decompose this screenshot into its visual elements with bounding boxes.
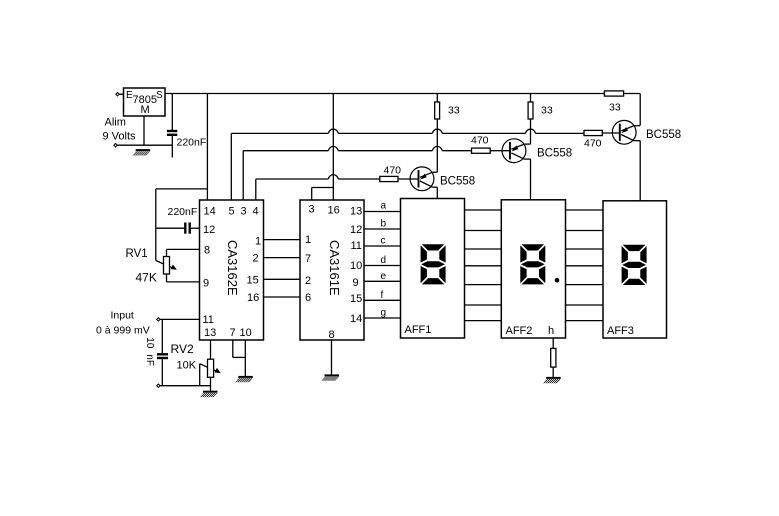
- 7-segment digit AFF1: [421, 244, 446, 284]
- svg-text:9: 9: [203, 278, 209, 290]
- bus rung b AFF1-AFF2: [465, 230, 502, 232]
- bus rung e AFF2-AFF3: [566, 284, 604, 286]
- svg-text:d: d: [381, 255, 387, 266]
- svg-text:Input: Input: [111, 310, 134, 322]
- wire pin8 to ground: [331, 340, 333, 375]
- transistor Q3 BC558: [612, 120, 681, 144]
- svg-text:33: 33: [541, 105, 553, 117]
- svg-text:2: 2: [305, 275, 311, 287]
- decimal point AFF2: [555, 278, 560, 283]
- bus rung a AFF1-AFF2: [465, 209, 502, 211]
- capacitor C1 220nF: [167, 94, 206, 158]
- svg-text:15: 15: [247, 275, 259, 287]
- svg-text:8: 8: [204, 245, 210, 257]
- transistor Q2 BC558: [502, 139, 572, 163]
- wire pins 7,10 to ground: [233, 340, 246, 376]
- wire segment b: [364, 219, 401, 230]
- svg-text:13: 13: [204, 327, 216, 339]
- wire Q1 collector to AFF1: [436, 187, 438, 198]
- terminal input+: [157, 318, 160, 321]
- svg-text:15: 15: [350, 293, 362, 305]
- ground under AFF2: [543, 378, 561, 383]
- wire alim ground rail: [118, 144, 173, 146]
- svg-text:220nF: 220nF: [168, 206, 198, 218]
- svg-text:AFF2: AFF2: [506, 325, 533, 337]
- svg-text:33: 33: [448, 105, 460, 117]
- svg-text:3: 3: [241, 206, 247, 218]
- svg-text:BC558: BC558: [440, 176, 475, 188]
- svg-text:11: 11: [351, 240, 362, 252]
- svg-text:470: 470: [384, 165, 402, 177]
- svg-text:10: 10: [144, 337, 155, 349]
- svg-text:10: 10: [350, 260, 362, 272]
- wire segment g: [364, 308, 401, 319]
- svg-text:8: 8: [329, 329, 335, 341]
- wire input- rail: [160, 385, 210, 387]
- resistor R2 33 (digit2 collector): [528, 94, 553, 145]
- bus rung e AFF1-AFF2: [465, 284, 502, 286]
- wire BCD 1-1: [264, 239, 301, 241]
- svg-text:6: 6: [305, 292, 311, 304]
- bus rung g AFF2-AFF3: [566, 320, 604, 322]
- svg-text:b: b: [381, 219, 387, 230]
- svg-text:BC558: BC558: [537, 148, 572, 160]
- ground under 7805: [132, 150, 150, 155]
- wire 7805 M pin down: [143, 116, 145, 145]
- svg-text:9 Volts: 9 Volts: [103, 131, 137, 143]
- svg-text:Alim: Alim: [105, 117, 126, 129]
- svg-text:7: 7: [230, 327, 236, 339]
- svg-text:3: 3: [309, 204, 315, 216]
- wire input+ to pin11: [160, 318, 199, 320]
- svg-text:2: 2: [253, 253, 259, 265]
- svg-text:S: S: [156, 90, 163, 101]
- svg-text:16: 16: [328, 205, 340, 217]
- svg-text:CA3162E: CA3162E: [225, 240, 240, 296]
- ground under CA3162E: [235, 377, 253, 382]
- resistor R4 470 (digit1 base): [380, 165, 419, 182]
- display AFF3: [603, 201, 667, 338]
- bus rung a AFF2-AFF3: [566, 209, 604, 211]
- bus rung f AFF2-AFF3: [566, 304, 604, 306]
- svg-text:1: 1: [255, 236, 261, 248]
- terminal input-: [157, 384, 160, 387]
- svg-text:10K: 10K: [177, 360, 197, 372]
- svg-text:47K: 47K: [136, 271, 157, 285]
- svg-text:g: g: [381, 308, 387, 319]
- svg-text:a: a: [381, 201, 387, 212]
- svg-text:12: 12: [350, 224, 362, 236]
- ground under CA3161E: [321, 375, 339, 380]
- wire rail to CA3161E pin16: [332, 94, 334, 201]
- svg-text:11: 11: [203, 314, 214, 326]
- terminal input E of 7805: [116, 93, 124, 96]
- wire BCD 15-2: [264, 278, 301, 280]
- potentiometer RV1 47K: [126, 248, 200, 285]
- wire BCD 16-6: [264, 296, 301, 298]
- svg-text:AFF1: AFF1: [405, 324, 432, 336]
- display AFF1: [401, 199, 465, 339]
- 7-segment digit AFF3: [622, 245, 647, 285]
- bus rung c AFF2-AFF3: [566, 248, 604, 250]
- wire segment e: [364, 271, 401, 282]
- bus rung d AFF1-AFF2: [465, 265, 502, 267]
- svg-text:12: 12: [203, 224, 215, 236]
- IC U2 CA3161E: [300, 200, 364, 340]
- svg-text:7: 7: [305, 253, 311, 265]
- potentiometer RV2 10K: [171, 340, 221, 391]
- svg-text:RV1: RV1: [126, 248, 148, 260]
- resistor R3 33 (digit3, on rail): [604, 91, 623, 114]
- svg-text:0 à 999 mV: 0 à 999 mV: [96, 325, 150, 337]
- svg-text:14: 14: [204, 206, 216, 218]
- svg-text:BC558: BC558: [646, 129, 681, 141]
- display AFF2: [501, 200, 565, 338]
- svg-text:RV2: RV2: [171, 342, 194, 356]
- svg-text:220nF: 220nF: [177, 137, 207, 149]
- svg-text:f: f: [381, 290, 384, 301]
- wire segment c: [364, 236, 401, 247]
- resistor R5 470 (digit2 base): [471, 135, 510, 154]
- svg-text:1: 1: [305, 234, 311, 246]
- svg-text:10: 10: [240, 327, 252, 339]
- ground under RV2: [200, 392, 218, 397]
- svg-text:9: 9: [353, 277, 359, 289]
- svg-text:470: 470: [584, 138, 602, 150]
- wire segment d: [364, 255, 401, 266]
- bus rung c AFF1-AFF2: [465, 248, 502, 250]
- wire digit line 1 (pin5): [231, 129, 584, 200]
- resistor R7 (h pin): [551, 348, 556, 367]
- wire BCD 2-7: [264, 257, 301, 259]
- wire digit line 3 (pin4): [256, 175, 380, 200]
- wire CA3161E pin3 elbow: [312, 188, 334, 201]
- transistor Q1 BC558: [410, 167, 475, 191]
- capacitor C3 10nF: [144, 319, 168, 385]
- svg-text:h: h: [548, 325, 554, 337]
- 7-segment digit AFF2: [520, 244, 545, 284]
- svg-text:470: 470: [471, 135, 489, 147]
- bus rung g AFF1-AFF2: [465, 320, 502, 322]
- resistor R1 33 (digit1 collector): [435, 94, 460, 173]
- bus rung f AFF1-AFF2: [465, 304, 502, 306]
- wire Q2 collector to AFF2: [530, 159, 532, 200]
- wire segment a: [364, 201, 401, 212]
- label Alim 9 Volts: [103, 117, 137, 143]
- capacitor C2 220nF: [156, 206, 200, 234]
- wire digit line 2 (pin3): [243, 146, 471, 200]
- wire R7 to ground: [552, 367, 554, 377]
- svg-text:nF: nF: [144, 354, 155, 366]
- svg-text:AFF3: AFF3: [607, 325, 634, 337]
- wire elbow pin12 net to pin14: [156, 189, 208, 261]
- IC U1 CA3162E: [200, 200, 264, 340]
- svg-text:5: 5: [229, 206, 235, 218]
- svg-text:M: M: [141, 104, 150, 116]
- svg-text:CA3161E: CA3161E: [327, 240, 342, 296]
- resistor R6 470 (digit3 base): [584, 130, 620, 149]
- bus rung d AFF2-AFF3: [566, 265, 604, 267]
- svg-text:16: 16: [247, 292, 259, 304]
- svg-text:e: e: [381, 271, 387, 282]
- regulator U4 7805: [124, 88, 166, 116]
- bus rung b AFF2-AFF3: [566, 230, 604, 232]
- terminal 0V alim: [114, 144, 117, 147]
- svg-text:4: 4: [253, 206, 259, 218]
- wire AFF2 h pin: [552, 338, 554, 348]
- wire rail to pin14: [206, 94, 208, 201]
- svg-text:13: 13: [350, 206, 362, 218]
- svg-text:14: 14: [350, 313, 362, 325]
- wire top +5V rail: [165, 94, 640, 126]
- wire segment f: [364, 290, 401, 301]
- svg-text:c: c: [381, 236, 386, 247]
- wire Q3 collector to AFF3: [639, 141, 641, 201]
- svg-text:33: 33: [609, 102, 621, 114]
